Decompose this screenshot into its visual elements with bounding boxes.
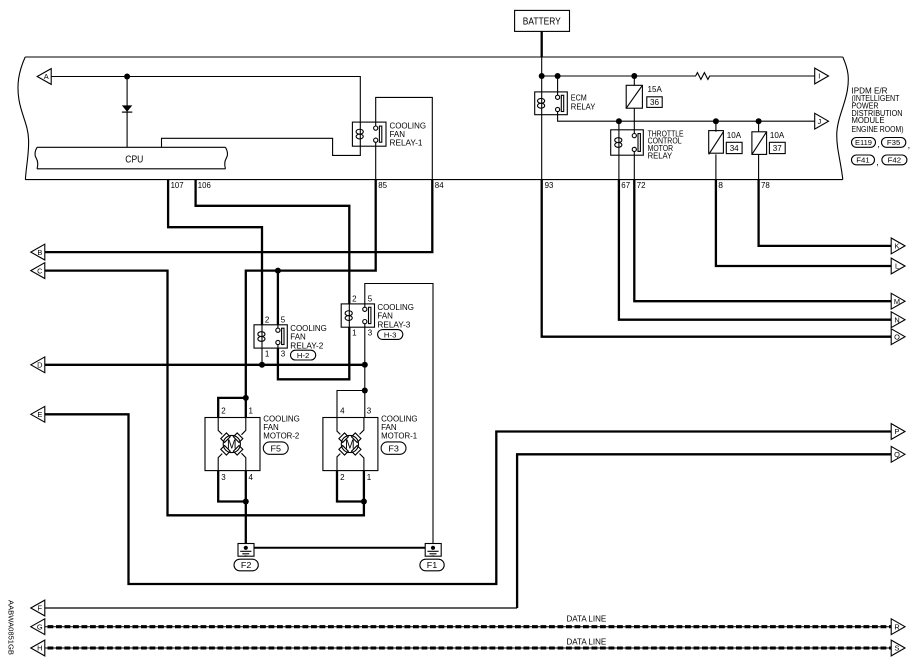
connector F2 oval bbox=[234, 559, 258, 571]
fuse 15A 36 bbox=[626, 84, 662, 108]
svg-text:4: 4 bbox=[340, 407, 345, 416]
svg-text:F35: F35 bbox=[887, 138, 901, 147]
cooling fan motor-1 F3 bbox=[323, 407, 418, 482]
wire A to cooling fan relay-1 coil bbox=[52, 77, 361, 123]
svg-text:MOTOR-1: MOTOR-1 bbox=[381, 431, 417, 441]
svg-text:3: 3 bbox=[281, 350, 286, 359]
connector F3 oval bbox=[381, 442, 406, 454]
wire ECM contact top stub bbox=[557, 76, 559, 95]
wire diode branch bbox=[126, 77, 128, 148]
junction ECM contact top bbox=[555, 73, 561, 79]
node E arrow bbox=[31, 406, 45, 422]
connector E119 oval bbox=[852, 138, 880, 150]
junction relay-3 pin 3 on D wire bbox=[362, 362, 368, 368]
svg-text:Q: Q bbox=[894, 450, 900, 459]
wire ECM coil to pin 93 bbox=[541, 115, 543, 180]
wire CPU to relay-1 coil bottom bbox=[162, 138, 361, 155]
wire motor-2 pin 2 lead bbox=[218, 398, 246, 418]
connector F41 oval bbox=[852, 155, 879, 167]
ground F1 bbox=[425, 544, 441, 557]
svg-text:2: 2 bbox=[221, 407, 226, 416]
wire relay-1 contact to pin 85 bbox=[375, 142, 377, 179]
node G arrow bbox=[31, 619, 45, 635]
wire I-line with resistor bbox=[542, 73, 815, 80]
svg-text:N: N bbox=[894, 315, 899, 324]
svg-text:K: K bbox=[895, 242, 900, 251]
node D arrow bbox=[31, 357, 45, 373]
wire relay-2 pin 3 to relay-3 pin 1 bbox=[278, 327, 349, 379]
svg-text:,: , bbox=[877, 139, 880, 149]
node Q arrow bbox=[891, 446, 905, 462]
ground F2 bbox=[238, 544, 254, 557]
svg-text:2: 2 bbox=[340, 473, 345, 482]
wire data line H base bbox=[45, 647, 892, 649]
node B arrow bbox=[31, 244, 45, 260]
svg-text:37: 37 bbox=[773, 143, 782, 153]
wire motor-1 pin 4 lead bbox=[337, 391, 365, 418]
svg-text:H-3: H-3 bbox=[384, 330, 397, 339]
svg-text:8: 8 bbox=[718, 180, 723, 190]
connector F5 oval bbox=[263, 442, 288, 454]
svg-text:RELAY-1: RELAY-1 bbox=[390, 138, 423, 148]
svg-text:F2: F2 bbox=[241, 561, 252, 570]
svg-text:AABWA0851GB: AABWA0851GB bbox=[6, 600, 13, 655]
svg-text:O: O bbox=[894, 332, 900, 341]
svg-text:1: 1 bbox=[367, 473, 372, 482]
svg-text:RELAY-3: RELAY-3 bbox=[377, 319, 410, 329]
node O arrow bbox=[891, 329, 905, 345]
wire 10A-37 stubs bbox=[758, 121, 760, 179]
wire battery to IPDM bbox=[541, 31, 543, 57]
IPDM E/R label block bbox=[852, 87, 904, 134]
IPDM E/R band outline bbox=[18, 57, 848, 180]
node K arrow bbox=[891, 238, 905, 254]
svg-text:G: G bbox=[37, 622, 43, 631]
svg-text:5: 5 bbox=[368, 295, 373, 304]
junction on A wire bbox=[124, 74, 130, 80]
wire pin 84 to node B bbox=[45, 180, 433, 253]
svg-text:P: P bbox=[895, 427, 900, 436]
wire relay-3 pin 5 to ground F1 bbox=[365, 284, 433, 548]
node A arrow bbox=[37, 69, 51, 85]
svg-text:106: 106 bbox=[198, 180, 211, 190]
CPU U1 bbox=[35, 147, 228, 169]
svg-text:107: 107 bbox=[171, 180, 184, 190]
junction 15A fuse top bbox=[631, 73, 637, 79]
junction 10A-37 top bbox=[756, 118, 762, 124]
wire ground bus F2 to F1 bbox=[254, 547, 425, 549]
wire ECM contact bottom J-line bbox=[558, 112, 815, 122]
wire motor-2 pin 4 to ground F2 bbox=[245, 471, 247, 547]
svg-text:B: B bbox=[37, 248, 42, 257]
junction motor-2 bottom bbox=[243, 499, 249, 505]
svg-text:93: 93 bbox=[545, 180, 554, 190]
svg-text:10A: 10A bbox=[727, 130, 742, 140]
svg-text:M: M bbox=[894, 297, 900, 306]
svg-text:84: 84 bbox=[435, 180, 444, 190]
svg-text:1: 1 bbox=[265, 350, 270, 359]
svg-text:ENGINE ROOM): ENGINE ROOM) bbox=[852, 125, 904, 134]
svg-text:A: A bbox=[44, 72, 49, 81]
wire pin 93 to arrow O bbox=[542, 180, 892, 337]
junction 10A-34 top bbox=[713, 118, 719, 124]
svg-text:36: 36 bbox=[650, 97, 659, 107]
junction battery I-line bbox=[539, 73, 545, 79]
svg-text:DATA LINE: DATA LINE bbox=[567, 637, 607, 646]
wire data line G dashes bbox=[48, 625, 892, 628]
ECM relay bbox=[535, 92, 596, 115]
svg-text:C: C bbox=[37, 266, 43, 275]
svg-text:F42: F42 bbox=[888, 156, 902, 165]
svg-text:RELAY-2: RELAY-2 bbox=[290, 340, 323, 350]
connector F42 oval bbox=[882, 155, 907, 165]
svg-text:I: I bbox=[818, 72, 820, 81]
wire 15A top stub bbox=[633, 76, 635, 85]
wire 15A bottom to throttle contact bbox=[633, 108, 635, 133]
wire 10A-34 stubs bbox=[715, 121, 717, 179]
svg-text:F5: F5 bbox=[271, 444, 282, 453]
wire battery drop to ECM relay bbox=[541, 57, 543, 92]
node N arrow bbox=[891, 312, 905, 328]
svg-text:H-2: H-2 bbox=[297, 351, 310, 360]
junction motor-1 top bbox=[362, 388, 368, 394]
svg-text:4: 4 bbox=[249, 473, 254, 482]
svg-text:F3: F3 bbox=[388, 444, 399, 453]
svg-text:15A: 15A bbox=[648, 84, 663, 94]
svg-text:RELAY: RELAY bbox=[571, 101, 596, 111]
svg-text:F1: F1 bbox=[427, 561, 438, 570]
svg-text:R: R bbox=[894, 622, 899, 631]
junction throttle relay coil top bbox=[616, 118, 622, 124]
svg-text:BATTERY: BATTERY bbox=[523, 16, 561, 27]
svg-text:5: 5 bbox=[281, 316, 286, 325]
svg-text:H: H bbox=[37, 644, 42, 653]
wire pin 85 to motor-2 bbox=[246, 180, 376, 418]
svg-text:1: 1 bbox=[352, 329, 357, 338]
svg-text:F: F bbox=[38, 604, 43, 613]
svg-text:67: 67 bbox=[621, 180, 630, 190]
svg-text:3: 3 bbox=[368, 329, 373, 338]
fuse 10A 34 bbox=[709, 130, 742, 154]
connector F1 oval bbox=[420, 559, 444, 571]
wire motor-2 pin 3 lead bbox=[218, 471, 246, 502]
svg-text:78: 78 bbox=[761, 180, 770, 190]
junction relay-2 pin 1 on D wire bbox=[259, 362, 265, 368]
wire throttle coil top stub bbox=[618, 121, 620, 130]
svg-text:10A: 10A bbox=[770, 130, 785, 140]
junction motor-1 bottom bbox=[361, 499, 367, 505]
wire motor-1 pin 3 lead bbox=[364, 391, 366, 418]
svg-text:,: , bbox=[908, 140, 911, 150]
svg-text:F41: F41 bbox=[856, 156, 870, 165]
wire data line H dashes bbox=[48, 646, 892, 649]
connector H-3 oval bbox=[378, 330, 403, 340]
node L arrow bbox=[891, 258, 905, 274]
svg-text:,: , bbox=[876, 157, 879, 167]
svg-text:2: 2 bbox=[265, 316, 270, 325]
node R arrow bbox=[891, 619, 905, 635]
wire pin 72 to arrow M bbox=[634, 180, 891, 302]
cooling fan relay-1 bbox=[352, 120, 426, 147]
svg-text:34: 34 bbox=[730, 143, 739, 153]
wire relay-1 contact to pin 84 bbox=[376, 97, 433, 179]
cooling fan relay-3 H-3 bbox=[341, 295, 414, 338]
diode D1 bbox=[122, 105, 132, 112]
svg-text:M: M bbox=[227, 437, 237, 451]
node M arrow bbox=[891, 293, 905, 309]
svg-text:J: J bbox=[817, 117, 821, 126]
svg-text:S: S bbox=[895, 644, 900, 653]
svg-text:DATA LINE: DATA LINE bbox=[567, 615, 607, 624]
svg-text:1: 1 bbox=[249, 407, 254, 416]
wire throttle contact to pin 72 bbox=[633, 152, 635, 180]
svg-text:L: L bbox=[895, 262, 899, 271]
wire pin 67 to arrow N bbox=[619, 180, 892, 320]
svg-text:MOTOR-2: MOTOR-2 bbox=[263, 431, 299, 441]
wire pin 107 to relay-2 coil bbox=[168, 180, 262, 325]
wire pin 106 to relay-3 coil bbox=[196, 180, 350, 304]
wire pin 8 to arrow L bbox=[716, 180, 892, 266]
wire F line bbox=[45, 607, 517, 609]
junction motor-2 top bbox=[243, 395, 249, 401]
svg-text:E: E bbox=[37, 410, 42, 419]
battery B1 bbox=[515, 10, 570, 31]
arrow J bbox=[815, 113, 829, 129]
svg-text:3: 3 bbox=[221, 473, 226, 482]
svg-text:2: 2 bbox=[352, 295, 357, 304]
svg-text:M: M bbox=[345, 437, 355, 451]
svg-text:RELAY: RELAY bbox=[648, 151, 673, 161]
node F arrow bbox=[31, 600, 45, 616]
wire throttle coil to pin 67 bbox=[618, 155, 620, 179]
svg-text:72: 72 bbox=[637, 180, 646, 190]
connector F35 oval bbox=[882, 138, 911, 150]
wire node F to arrow Q bbox=[517, 454, 891, 608]
wire motor-1 pin 1 lead bbox=[363, 471, 365, 502]
wire relay-2 pin 5 stub bbox=[277, 271, 279, 325]
fuse 10A 37 bbox=[752, 130, 785, 154]
node H arrow bbox=[31, 640, 45, 656]
throttle control motor relay bbox=[611, 128, 684, 160]
connector H-2 oval bbox=[291, 350, 316, 360]
svg-text:CPU: CPU bbox=[125, 155, 143, 166]
wire relay-2 pin 1 stub bbox=[261, 348, 263, 365]
svg-text:85: 85 bbox=[378, 180, 387, 190]
node P arrow bbox=[891, 424, 905, 440]
wire motor-1 pin 2 lead bbox=[337, 471, 364, 502]
wire node C to motor-1 bbox=[45, 271, 364, 516]
cooling fan motor-2 F5 bbox=[205, 407, 300, 482]
wire node E to arrow P bbox=[45, 414, 892, 584]
wire node D to relay pins bbox=[45, 364, 365, 366]
svg-text:D: D bbox=[37, 361, 42, 370]
junction relay-2 contact 5 bbox=[275, 268, 281, 274]
node C arrow bbox=[31, 263, 45, 279]
svg-text:E119: E119 bbox=[855, 138, 872, 147]
wire relay-3 pin 3 stub bbox=[364, 327, 366, 390]
cooling fan relay-2 H-2 bbox=[254, 316, 327, 359]
svg-text:3: 3 bbox=[367, 407, 372, 416]
arrow I bbox=[815, 68, 829, 84]
wire pin 78 to arrow K bbox=[759, 180, 892, 246]
node S arrow bbox=[891, 640, 905, 656]
wire data line G base bbox=[45, 626, 892, 628]
